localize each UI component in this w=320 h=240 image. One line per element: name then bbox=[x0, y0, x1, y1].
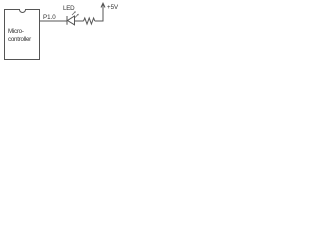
label LED bbox=[63, 5, 75, 12]
label Micro-controller bbox=[8, 28, 31, 43]
wire from P1.0 to LED cathode bbox=[40, 20, 68, 22]
svg-text:LED: LED bbox=[63, 5, 75, 12]
microcontroller U1 bbox=[5, 10, 40, 60]
wire from resistor to +5V riser bbox=[95, 4, 103, 21]
svg-text:Micro-: Micro- bbox=[8, 28, 24, 35]
svg-text:+5V: +5V bbox=[107, 4, 119, 11]
svg-text:controller: controller bbox=[8, 36, 31, 43]
wire from LED anode to resistor bbox=[75, 20, 84, 22]
label +5V bbox=[107, 4, 119, 11]
+5V supply arrow bbox=[101, 3, 105, 7]
LED emission arrows bbox=[72, 11, 79, 17]
LED D1 bbox=[67, 16, 75, 25]
resistor R1 bbox=[84, 18, 95, 24]
pin label P1.0 bbox=[43, 14, 56, 21]
svg-text:P1.0: P1.0 bbox=[43, 14, 56, 21]
